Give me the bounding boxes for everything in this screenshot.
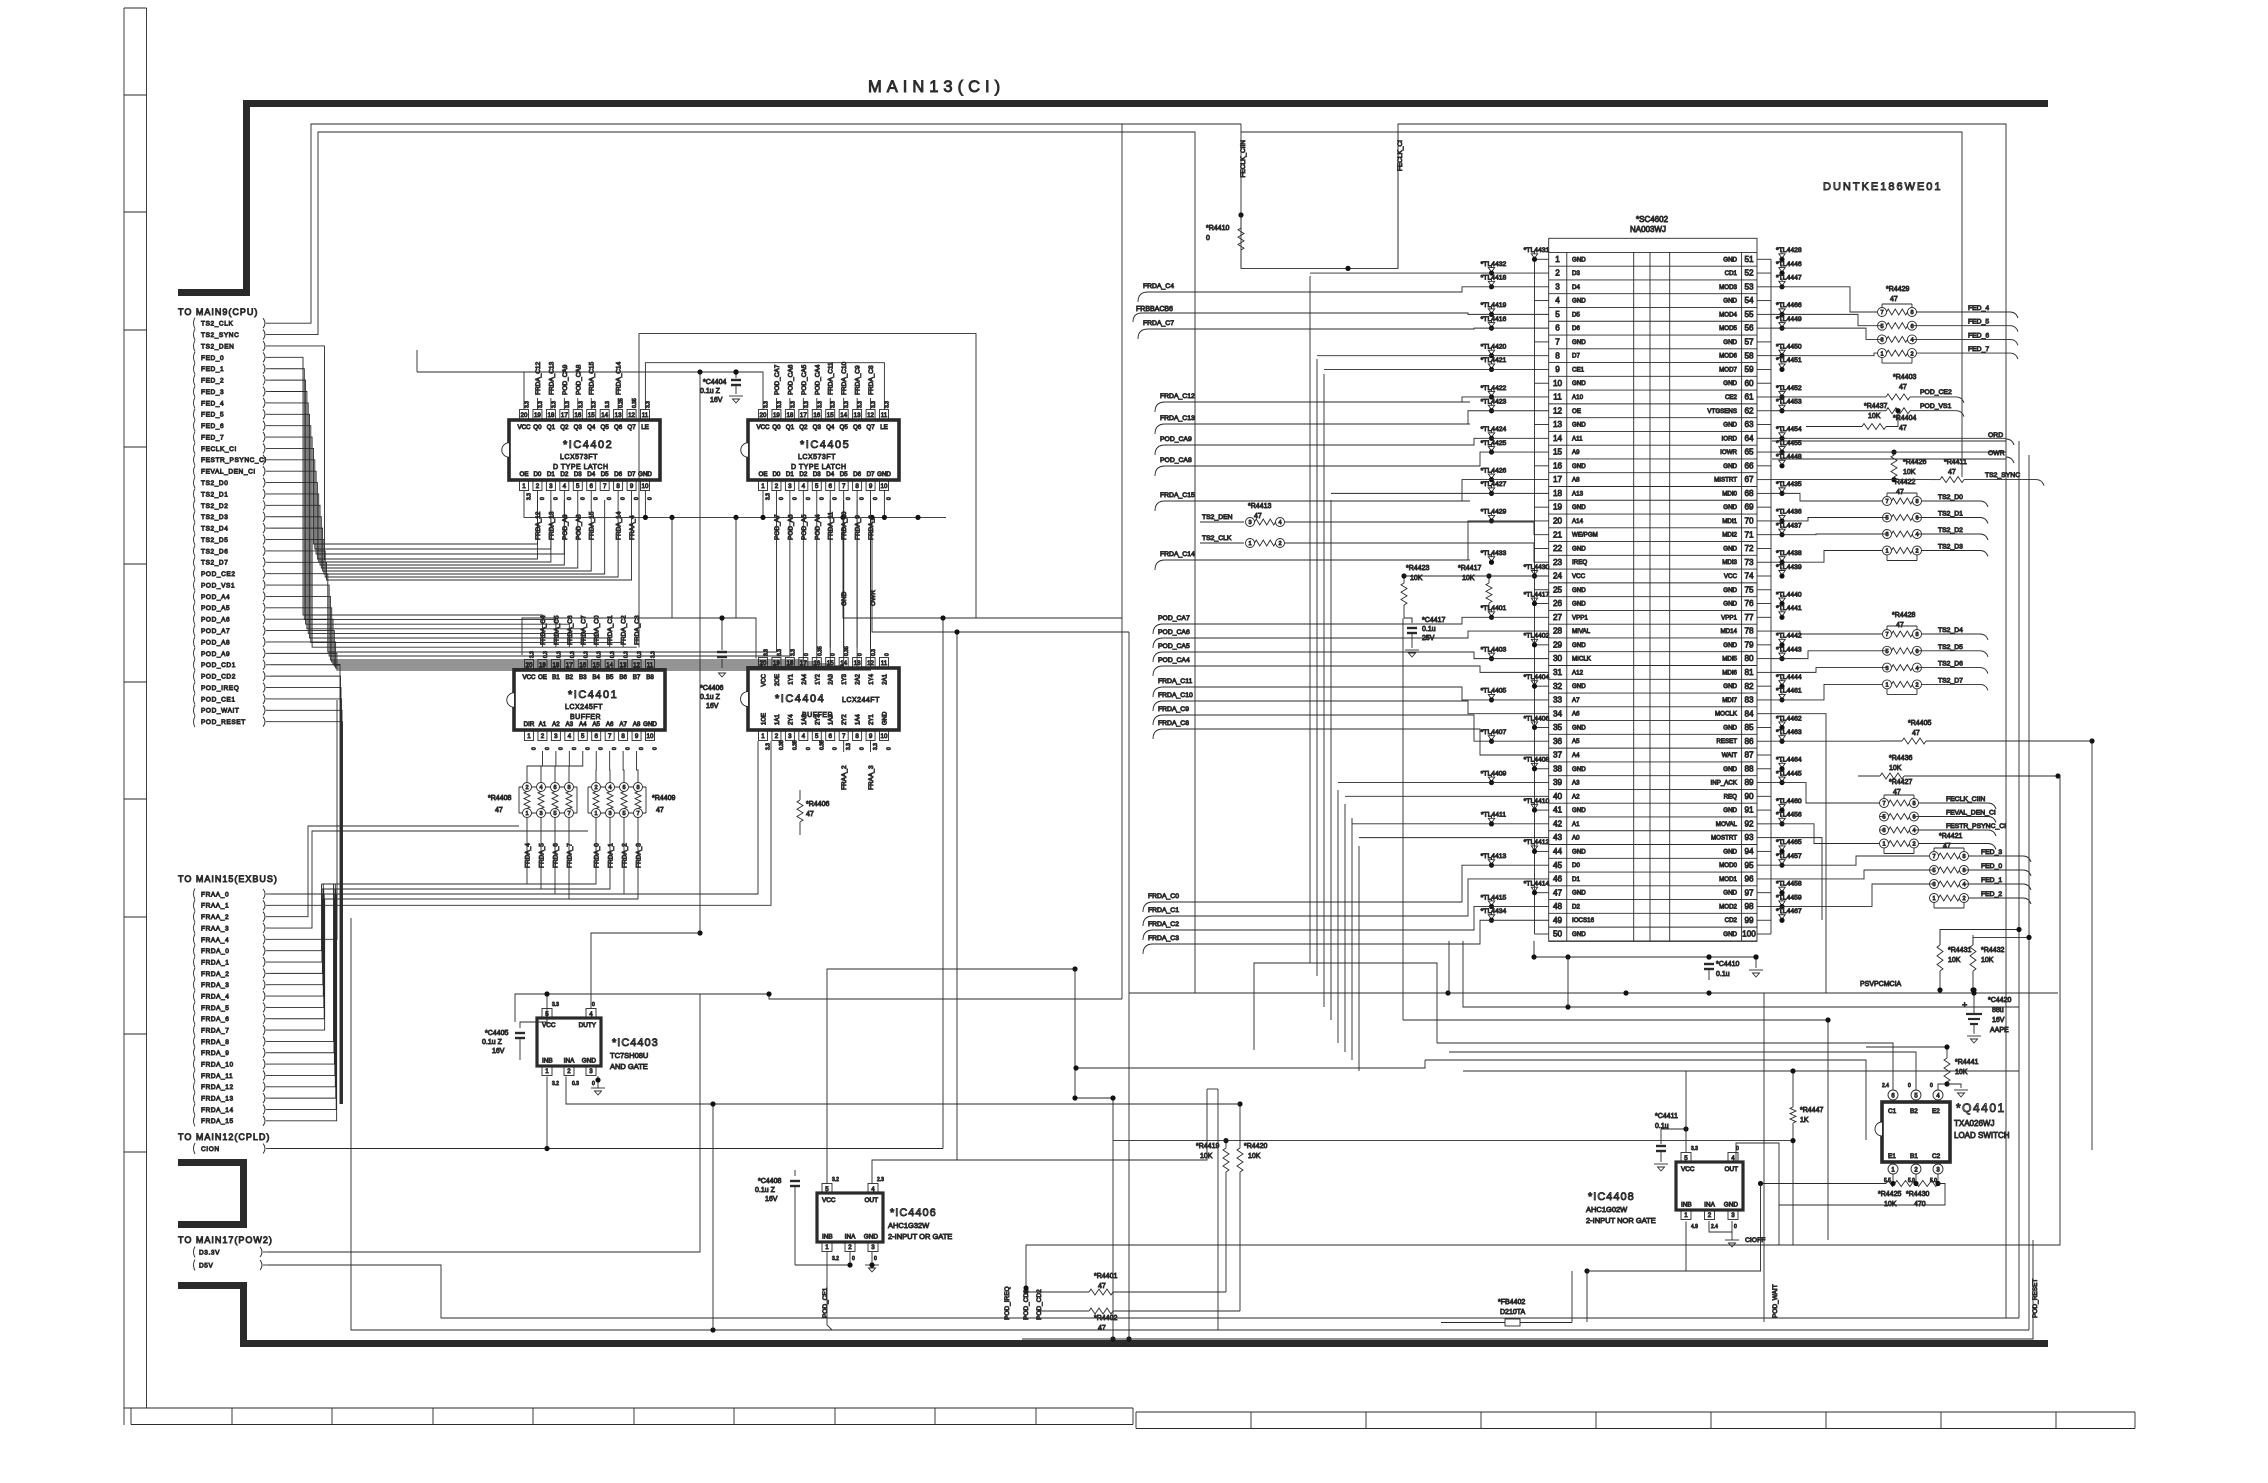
svg-text:3.3: 3.3: [873, 743, 879, 750]
svg-text:3.3: 3.3: [844, 401, 850, 408]
svg-text:TS2_D0: TS2_D0: [1938, 494, 1963, 501]
svg-text:1OE: 1OE: [762, 713, 768, 725]
svg-text:POD_A4: POD_A4: [201, 594, 230, 601]
svg-text:65: 65: [1744, 448, 1754, 457]
wire row 1052: [1449, 1052, 1916, 1090]
svg-text:0: 0: [804, 653, 810, 656]
wire pin92 to R4427r3: [1771, 824, 1880, 844]
svg-text:100: 100: [1742, 930, 1756, 939]
svg-text:MAIN13(CI): MAIN13(CI): [868, 78, 1005, 96]
svg-text:18: 18: [547, 412, 554, 419]
wire pin56 to R4429: [1771, 328, 1878, 339]
svg-text:31: 31: [1553, 668, 1563, 677]
svg-text:A2: A2: [552, 721, 560, 728]
svg-text:POD_CA9: POD_CA9: [1160, 436, 1192, 443]
svg-text:0: 0: [592, 1002, 595, 1008]
wire POD_VS1 wire: [271, 500, 790, 656]
wire FRDA comb B 3: [335, 824, 638, 899]
frame pow2 corner: [178, 1286, 244, 1344]
svg-text:Q2: Q2: [560, 424, 569, 431]
svg-text:0: 0: [592, 1081, 595, 1087]
svg-text:INA: INA: [1704, 1202, 1715, 1209]
svg-text:*IC4405: *IC4405: [800, 439, 850, 451]
wire row9 in: [1324, 368, 1549, 370]
svg-text:GND: GND: [883, 711, 889, 725]
svg-text:74: 74: [1744, 572, 1754, 581]
wire IC4406 out up: [872, 1089, 1207, 1184]
svg-text:16: 16: [1553, 461, 1563, 470]
svg-text:MDI6: MDI6: [1722, 669, 1737, 676]
svg-text:6: 6: [828, 733, 832, 740]
svg-text:80: 80: [1744, 654, 1754, 663]
svg-text:FRDA_C10: FRDA_C10: [841, 361, 848, 395]
wire conn bottom loop3: [1463, 941, 2019, 1007]
svg-text:POD_CA6: POD_CA6: [1158, 629, 1190, 636]
svg-text:LCX244FT: LCX244FT: [842, 697, 880, 704]
svg-text:FRDA_C2: FRDA_C2: [1148, 921, 1179, 928]
svg-text:9: 9: [630, 483, 634, 490]
svg-text:D3: D3: [574, 471, 582, 478]
port FRDA_11: [194, 1070, 196, 1081]
wire POD_RESET wire: [271, 722, 343, 1104]
svg-text:FRDA_C3: FRDA_C3: [634, 615, 641, 645]
svg-text:3.3: 3.3: [777, 401, 783, 408]
svg-text:5: 5: [553, 811, 556, 817]
port FRAA_0: [194, 889, 196, 900]
svg-text:8: 8: [1555, 351, 1560, 360]
svg-text:2: 2: [1915, 683, 1918, 689]
wire FED_6 wire: [271, 426, 623, 648]
svg-text:D3: D3: [813, 471, 821, 478]
latch IC4402 LCX573FT: [509, 420, 660, 480]
port TS2_CLK: [194, 318, 196, 329]
wire bundle v0: [1309, 276, 1311, 963]
wire FRDA comb A 2: [322, 824, 555, 894]
wire IC4401 p5 to R4408: [569, 751, 583, 776]
svg-text:*R4408: *R4408: [488, 795, 511, 802]
svg-text:26: 26: [1553, 599, 1563, 608]
junction: [869, 515, 874, 520]
svg-text:FRDA_2: FRDA_2: [201, 971, 230, 978]
wire FRDA_5 wire: [271, 889, 324, 1007]
wire FRDA_3 wire: [271, 899, 323, 985]
wire Q4401 R4425 left: [1761, 1183, 1887, 1185]
wire TS2_D5 wire: [271, 500, 605, 574]
svg-text:*R4413: *R4413: [1248, 503, 1271, 510]
svg-text:5: 5: [1885, 649, 1888, 655]
wire R4431 top link: [1940, 930, 2019, 946]
svg-text:B7: B7: [633, 674, 641, 681]
svg-text:16V: 16V: [492, 1048, 505, 1055]
svg-text:10K: 10K: [1884, 1201, 1897, 1208]
svg-text:FED_2: FED_2: [1981, 891, 2002, 898]
wire POD_IREQ wire: [271, 688, 341, 1104]
svg-text:2.4: 2.4: [1882, 1083, 1889, 1089]
svg-text:0: 0: [858, 653, 864, 656]
svg-text:*TL4411: *TL4411: [1481, 812, 1506, 819]
junction: [766, 991, 771, 996]
wire stair to pin 3: [1460, 287, 1549, 292]
svg-text:*TL4405: *TL4405: [1481, 688, 1507, 695]
port FRDA_9: [194, 1047, 196, 1058]
wire row 1020: [1403, 1020, 1828, 1240]
svg-text:VPP1: VPP1: [1721, 614, 1737, 621]
svg-text:10: 10: [1553, 379, 1563, 388]
svg-text:D3.3V: D3.3V: [199, 1249, 220, 1256]
svg-text:*TL4431: *TL4431: [1524, 247, 1550, 254]
svg-text:FED_6: FED_6: [1968, 332, 1989, 339]
svg-text:GND: GND: [1724, 1202, 1739, 1209]
svg-text:1Y4: 1Y4: [869, 673, 875, 684]
svg-text:Q1: Q1: [786, 424, 795, 431]
svg-text:47: 47: [1899, 384, 1907, 391]
svg-text:20: 20: [760, 412, 767, 419]
svg-text:D TYPE LATCH: D TYPE LATCH: [553, 464, 609, 471]
svg-text:41: 41: [1553, 806, 1563, 815]
svg-text:9: 9: [869, 733, 873, 740]
svg-text:3: 3: [1932, 882, 1935, 888]
junction: [1825, 1017, 1830, 1022]
svg-text:GND: GND: [1723, 724, 1737, 731]
wire stair to pin 30: [1460, 652, 1549, 659]
svg-text:TS2_D6: TS2_D6: [201, 548, 228, 555]
junction: [915, 515, 920, 520]
wire vert 2029: [2028, 455, 2030, 1330]
svg-text:10K: 10K: [1868, 413, 1881, 420]
svg-text:FRDA_C7: FRDA_C7: [1143, 320, 1174, 327]
svg-text:*R4420: *R4420: [1244, 1143, 1267, 1150]
svg-text:*TL4438: *TL4438: [1776, 550, 1802, 557]
svg-text:FRDA_C15: FRDA_C15: [589, 361, 596, 395]
svg-text:3: 3: [1885, 666, 1888, 672]
wire stair to pin 33: [1460, 687, 1549, 700]
port POD_A9: [194, 648, 196, 659]
svg-text:4: 4: [1278, 520, 1281, 526]
svg-text:*R4401: *R4401: [1094, 1273, 1117, 1280]
svg-text:B2: B2: [566, 674, 574, 681]
svg-text:18: 18: [786, 412, 793, 419]
svg-text:*R4431: *R4431: [1948, 947, 1971, 954]
svg-text:17: 17: [800, 412, 807, 419]
svg-text:FRDA_C1: FRDA_C1: [1148, 907, 1179, 914]
svg-text:7: 7: [608, 733, 612, 740]
svg-text:0: 0: [873, 497, 879, 500]
svg-text:8: 8: [1912, 801, 1915, 807]
svg-text:2: 2: [1555, 269, 1560, 278]
svg-text:POD_CD2: POD_CD2: [1036, 1289, 1043, 1320]
port FRDA_6: [194, 1013, 196, 1024]
svg-text:11: 11: [881, 412, 888, 419]
wire IC4401 p4 to R4408: [555, 751, 569, 776]
svg-text:*TL4437: *TL4437: [1776, 522, 1802, 529]
svg-text:POD_CA8: POD_CA8: [575, 364, 582, 395]
svg-text:24: 24: [1553, 572, 1563, 581]
svg-text:GND: GND: [638, 471, 652, 478]
port FRDA_8: [194, 1036, 196, 1047]
svg-text:FRDA_15: FRDA_15: [201, 1118, 234, 1125]
svg-text:MICLK: MICLK: [1572, 656, 1592, 663]
wire bundle v1: [1316, 359, 1318, 976]
svg-text:12: 12: [867, 412, 874, 419]
svg-text:3: 3: [589, 1068, 593, 1075]
svg-text:LCX573FT: LCX573FT: [560, 454, 598, 461]
wire POD_CD2 wire: [271, 676, 341, 1104]
svg-text:GND: GND: [1572, 724, 1586, 731]
svg-text:47: 47: [1912, 730, 1920, 737]
port FRDA_13: [194, 1093, 196, 1104]
svg-text:*R4411: *R4411: [1944, 459, 1967, 466]
svg-text:IREQ: IREQ: [1572, 559, 1587, 566]
wire stair to pin 27: [1460, 617, 1549, 624]
resistor R4430 470: [1912, 1181, 1938, 1187]
svg-text:67: 67: [1744, 475, 1754, 484]
svg-text:D210TA: D210TA: [1500, 1309, 1525, 1316]
svg-text:1: 1: [825, 1244, 829, 1251]
wire pin83 to R4428: [1771, 684, 1883, 700]
svg-text:10: 10: [647, 733, 654, 740]
svg-text:TS2_D1: TS2_D1: [201, 491, 228, 498]
svg-text:GND: GND: [1572, 807, 1586, 814]
svg-text:1: 1: [1932, 896, 1935, 902]
port CION: [194, 1143, 196, 1154]
svg-text:POD_A9: POD_A9: [562, 514, 569, 540]
svg-text:*IC4408: *IC4408: [1588, 1191, 1635, 1203]
svg-text:FED_4: FED_4: [1968, 305, 1989, 312]
svg-text:E1: E1: [1888, 1153, 1896, 1160]
wire row2 in: [1310, 272, 1549, 274]
resistor R4406 47: [797, 800, 803, 822]
svg-text:VCC: VCC: [1724, 573, 1738, 580]
wire row 1068: [1076, 1060, 1425, 1068]
svg-text:4: 4: [589, 1011, 593, 1018]
svg-text:8: 8: [1915, 499, 1918, 505]
svg-text:Q6: Q6: [853, 424, 862, 431]
wire FRDA_15 wire: [271, 899, 337, 1121]
svg-text:A8: A8: [633, 721, 641, 728]
wire FRDA comb A 0: [322, 824, 528, 884]
junction: [1944, 1081, 1949, 1086]
svg-text:0.35: 0.35: [819, 740, 825, 750]
svg-text:FRDA_C14: FRDA_C14: [616, 361, 623, 395]
svg-text:3.2: 3.2: [552, 1081, 559, 1087]
svg-text:*R4441: *R4441: [1955, 1059, 1978, 1066]
svg-text:*IC4402: *IC4402: [563, 439, 613, 451]
wire IC4403 vcc rail: [546, 994, 548, 1009]
ground IC4408: [1709, 1221, 1732, 1232]
svg-text:GND: GND: [1723, 504, 1737, 511]
port FRDA_10: [194, 1059, 196, 1070]
svg-text:43: 43: [1553, 833, 1563, 842]
svg-text:2Y2: 2Y2: [842, 714, 848, 725]
svg-text:4: 4: [1915, 532, 1918, 538]
svg-text:Q6: Q6: [614, 424, 623, 431]
svg-text:TS2_DEN: TS2_DEN: [201, 343, 234, 350]
svg-text:91: 91: [1744, 806, 1754, 815]
net FECLK box: [1241, 124, 1398, 268]
svg-text:FRDA_10: FRDA_10: [201, 1062, 234, 1069]
svg-text:15: 15: [1553, 448, 1563, 457]
svg-text:FED_7: FED_7: [201, 434, 224, 441]
svg-text:POD_CE2: POD_CE2: [201, 571, 236, 578]
svg-text:0: 0: [831, 653, 837, 656]
svg-text:GND: GND: [1723, 256, 1737, 263]
svg-text:GND: GND: [1723, 890, 1737, 897]
svg-text:3.3: 3.3: [858, 401, 864, 408]
junction: [760, 515, 765, 520]
svg-text:A4: A4: [579, 721, 587, 728]
wire IC4401 p2 to R4408: [527, 751, 542, 776]
wire row43 in: [1359, 837, 1549, 839]
svg-text:FRDA_3: FRDA_3: [201, 982, 230, 989]
port POD_A8: [194, 636, 196, 647]
svg-text:POD_A9: POD_A9: [201, 651, 230, 658]
junction: [940, 615, 945, 620]
svg-text:FRDA_C8: FRDA_C8: [1158, 720, 1189, 727]
wire TS2_D1 wire: [271, 494, 551, 562]
svg-text:A2: A2: [1572, 793, 1580, 800]
wire CIOFF long: [1026, 1245, 1748, 1288]
svg-text:8: 8: [855, 733, 859, 740]
junction: [697, 930, 702, 935]
svg-text:WAIT: WAIT: [1722, 752, 1737, 759]
svg-text:90: 90: [1744, 792, 1754, 801]
svg-text:MDI5: MDI5: [1722, 656, 1737, 663]
port TS2_D5: [194, 534, 196, 545]
svg-text:FECLK_CI: FECLK_CI: [201, 446, 237, 453]
svg-text:GND: GND: [643, 721, 657, 728]
svg-text:92: 92: [1744, 819, 1754, 828]
wire FRDA_12 wire: [271, 884, 335, 1087]
svg-text:4: 4: [1962, 882, 1965, 888]
wire vert 713: [712, 1104, 714, 1330]
svg-text:1: 1: [545, 1068, 549, 1075]
svg-text:*TL4448: *TL4448: [1776, 454, 1802, 461]
svg-text:TO MAIN9(CPU): TO MAIN9(CPU): [178, 307, 258, 317]
svg-text:1: 1: [1885, 683, 1888, 689]
svg-text:GND: GND: [1572, 504, 1586, 511]
svg-text:POD_CD2: POD_CD2: [201, 674, 236, 681]
wire vert 1254: [1254, 963, 1437, 1050]
svg-text:*TL4443: *TL4443: [1776, 646, 1802, 653]
svg-text:*TL4426: *TL4426: [1481, 467, 1507, 474]
wire conn bottom loop2: [1448, 941, 1450, 993]
wire pin71 to R4422: [1771, 533, 1883, 536]
svg-text:10: 10: [881, 483, 888, 490]
svg-text:POD_CA5: POD_CA5: [801, 364, 808, 395]
svg-text:D0: D0: [1572, 862, 1580, 869]
port FESTR_PSYNC_CI: [194, 454, 196, 465]
wire stair to pin 17: [1462, 480, 1549, 501]
svg-text:TS2_SYNC: TS2_SYNC: [201, 332, 239, 339]
svg-text:FRDA_11: FRDA_11: [828, 512, 835, 540]
svg-text:81: 81: [1744, 668, 1754, 677]
svg-text:GND: GND: [1572, 931, 1586, 938]
svg-text:TO MAIN12(CPLD): TO MAIN12(CPLD): [178, 1132, 270, 1142]
wire vert 1218: [1217, 1089, 1219, 1330]
svg-text:FRDA_6: FRDA_6: [553, 843, 560, 868]
svg-text:39: 39: [1553, 778, 1563, 787]
svg-text:FRDA_C14: FRDA_C14: [1160, 551, 1195, 558]
svg-text:*C4405: *C4405: [485, 1030, 508, 1037]
port FRDA_5: [194, 1002, 196, 1013]
svg-text:FRAA_4: FRAA_4: [629, 515, 636, 540]
svg-text:*Q4401: *Q4401: [1956, 1101, 2006, 1115]
wire IC4403 pin2 down: [566, 1077, 1240, 1105]
svg-text:POD_A6: POD_A6: [201, 617, 230, 624]
wire Q4401 E2 up: [1938, 1084, 1947, 1090]
svg-text:FRDA_C15: FRDA_C15: [1160, 492, 1195, 499]
svg-text:*TL4441: *TL4441: [1776, 605, 1802, 612]
port TS2_D3: [194, 511, 196, 522]
svg-text:71: 71: [1744, 530, 1754, 539]
svg-text:*TL4449: *TL4449: [1776, 316, 1802, 323]
svg-text:1Y1: 1Y1: [788, 673, 794, 684]
port TS2_D1: [194, 488, 196, 499]
wire IC4408 inb down: [1587, 1222, 1686, 1323]
svg-text:0: 0: [545, 747, 551, 750]
svg-text:TS2_CLK: TS2_CLK: [1202, 535, 1232, 542]
svg-text:36: 36: [1553, 737, 1563, 746]
svg-text:D5V: D5V: [199, 1262, 214, 1269]
svg-text:0.25: 0.25: [619, 398, 625, 408]
svg-text:54: 54: [1744, 296, 1754, 305]
svg-text:44: 44: [1553, 847, 1563, 856]
svg-text:1Y2: 1Y2: [815, 673, 821, 684]
svg-text:8: 8: [855, 483, 859, 490]
port POD_WAIT: [194, 705, 196, 716]
wire FRDA_13 wire: [271, 889, 336, 1098]
svg-text:A12: A12: [1572, 669, 1584, 676]
junction: [710, 1101, 715, 1106]
junction: [1531, 954, 1536, 959]
svg-text:FEVAL_DEN_CI: FEVAL_DEN_CI: [1946, 810, 1996, 817]
wire row 1140: [1113, 1141, 1793, 1245]
svg-text:FRDA_C3: FRDA_C3: [1148, 935, 1179, 942]
svg-text:*TL4422: *TL4422: [1481, 385, 1507, 392]
svg-text:*TL4430: *TL4430: [1524, 564, 1550, 571]
svg-text:3.3: 3.3: [552, 1002, 559, 1008]
svg-text:28: 28: [1553, 627, 1563, 636]
svg-text:*R4406: *R4406: [806, 801, 829, 808]
svg-text:*TL4461: *TL4461: [1776, 688, 1802, 695]
resistor array R4409: [587, 787, 589, 813]
wire FEVAL_DEN_CI wire: [271, 471, 564, 554]
svg-text:A13: A13: [1572, 490, 1584, 497]
wire TS2_D2 wire: [271, 500, 564, 565]
svg-text:0: 0: [553, 497, 559, 500]
svg-text:*C4411: *C4411: [1655, 1113, 1678, 1120]
wire pin89 to R4427: [1771, 783, 1880, 803]
svg-text:D6: D6: [1572, 325, 1580, 332]
svg-text:B3: B3: [579, 674, 587, 681]
frame cpld bracket: [178, 1163, 244, 1225]
svg-text:+: +: [1962, 1000, 1967, 1010]
svg-text:D1: D1: [547, 471, 555, 478]
svg-text:1: 1: [761, 733, 765, 740]
wire bundle v2: [1323, 374, 1325, 1007]
svg-text:7: 7: [1882, 801, 1885, 807]
svg-text:0: 0: [607, 497, 613, 500]
title MAIN13(CI): [868, 78, 1005, 96]
svg-text:OWR: OWR: [870, 590, 877, 606]
svg-text:2Y4: 2Y4: [788, 714, 794, 725]
svg-text:FED_4: FED_4: [201, 400, 224, 407]
svg-text:GND: GND: [1572, 380, 1586, 387]
svg-text:FESTR_PSYNC_CI: FESTR_PSYNC_CI: [201, 457, 267, 464]
svg-text:3: 3: [539, 811, 542, 817]
svg-text:*TL4413: *TL4413: [1481, 853, 1507, 860]
svg-text:B8: B8: [646, 674, 654, 681]
